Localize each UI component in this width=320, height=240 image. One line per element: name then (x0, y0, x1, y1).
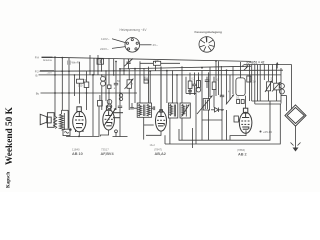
wire (172, 70, 174, 103)
wire (226, 110, 228, 140)
potentiometer VOL (208, 72, 210, 98)
wire (93, 58, 95, 75)
shield can (236, 78, 245, 96)
svg-text:+12V: +12V (47, 73, 53, 75)
ground arrow (293, 148, 299, 152)
electrolytic C pair (119, 94, 122, 97)
svg-text:220V~: 220V~ (100, 47, 109, 51)
wire (67, 110, 69, 129)
svg-text:AB 10: AB 10 (72, 152, 83, 156)
resistor R inline (140, 62, 180, 64)
capacitor C V2grid (108, 85, 111, 89)
resistor R7 (197, 81, 201, 88)
cathode blob V1 (69, 128, 72, 131)
wire segment B (113, 136, 128, 138)
wire (139, 61, 141, 103)
diode D2 (226, 95, 234, 105)
bus A (Antenne) (53, 57, 252, 61)
svg-text:73517: 73517 (101, 148, 109, 152)
diode D1 (215, 108, 219, 113)
wire (155, 65, 157, 71)
electrolytic C psu (279, 84, 284, 89)
speaker LS (40, 113, 54, 128)
wire (105, 71, 107, 101)
psu bottom bus (252, 100, 281, 102)
potentiometer P (128, 69, 130, 80)
wire (62, 109, 69, 111)
tube V2 (103, 106, 123, 130)
wire (220, 66, 222, 96)
wire (185, 77, 187, 94)
wire under V3 (146, 131, 161, 135)
wire (97, 58, 99, 75)
coil L osc (180, 103, 190, 118)
capacitor C (115, 62, 117, 84)
tube V3 (156, 67, 167, 132)
svg-text:1m: 1m (130, 83, 133, 86)
wire (134, 69, 136, 103)
grid box V4 left (234, 116, 238, 122)
wire (140, 44, 152, 46)
arrow busD (244, 67, 248, 71)
wire (181, 66, 183, 103)
label bias (260, 131, 262, 133)
svg-text:Heizspannung ~4V: Heizspannung ~4V (120, 28, 148, 32)
wire (54, 57, 56, 116)
electrolytic C (198, 77, 200, 88)
capacitor C ift1 left (131, 103, 133, 107)
svg-text:+05-13: +05-13 (263, 130, 272, 134)
grid feed V4 (245, 96, 247, 109)
wire (148, 67, 150, 103)
wire (73, 75, 75, 96)
wire (195, 88, 197, 145)
resistor R (101, 75, 103, 77)
svg-text:55+B51 = 42: 55+B51 = 42 (246, 61, 265, 65)
svg-text:2M: 2M (104, 77, 107, 79)
svg-text:Antenne: Antenne (43, 59, 53, 62)
svg-text:(7884): (7884) (237, 148, 245, 152)
PSU verticals (251, 65, 253, 102)
capacitor C11 (188, 89, 192, 91)
bus B (40, 70, 284, 71)
svg-text:Bu: Bu (36, 91, 40, 95)
wire (149, 71, 151, 103)
svg-text:AB,A2: AB,A2 (155, 152, 166, 156)
svg-text:500: 500 (78, 84, 83, 88)
svg-text:11840: 11840 (72, 148, 80, 152)
capacitor C9 (220, 94, 224, 96)
capacitor C (194, 73, 196, 85)
svg-text:Kapsch: Kapsch (7, 172, 12, 188)
bus C (39, 74, 282, 76)
wire AVC left (92, 75, 94, 136)
svg-text:110V~: 110V~ (101, 37, 110, 41)
PSU box top (244, 64, 292, 66)
bus D (120, 66, 251, 69)
wire under V1 (67, 106, 100, 136)
resistor R small (247, 76, 251, 82)
svg-text:(7847): (7847) (154, 148, 162, 152)
psu bottom 2 (255, 103, 281, 105)
mains box (63, 129, 70, 135)
wire (112, 47, 125, 49)
wire (295, 126, 297, 147)
psu vertical (248, 65, 250, 102)
svg-text:10k: 10k (155, 58, 160, 62)
svg-text:Wk+FL: Wk+FL (72, 60, 81, 64)
resistor R psu (267, 82, 271, 91)
wire (209, 67, 211, 97)
electrolytic C (107, 100, 112, 105)
svg-text:4V~: 4V~ (153, 43, 159, 47)
capacitor C 0.1 (237, 100, 240, 104)
wire (112, 39, 125, 43)
trimmer C1 (128, 59, 130, 62)
wire (101, 58, 103, 71)
pickup diamond (285, 105, 306, 126)
svg-text:Fassungsbelegung: Fassungsbelegung (195, 30, 223, 34)
wire (201, 70, 203, 99)
resistor R 500 (86, 71, 88, 110)
wire (226, 70, 228, 104)
wire (192, 128, 194, 148)
grid feed V2 (108, 58, 110, 104)
wire (201, 99, 203, 140)
transformer TR1 winding (60, 114, 64, 130)
coupling C to V1 grid (79, 62, 81, 79)
wire (68, 71, 70, 128)
wire (176, 75, 178, 103)
arrow psu2 (272, 82, 281, 92)
wire (89, 55, 91, 75)
capacitor C wk (68, 58, 70, 61)
wire (166, 71, 168, 103)
socket S2 (199, 37, 215, 53)
wire (123, 59, 125, 75)
svg-text:B.: B. (36, 73, 39, 77)
wire to diamond (291, 65, 293, 109)
resistor R zigzag (54, 117, 57, 129)
resistor R (144, 80, 148, 83)
arrow up (276, 64, 278, 69)
IF transformer IFT2 (168, 103, 177, 118)
svg-text:13+2: 13+2 (150, 144, 156, 147)
wire (181, 118, 183, 140)
resistor R8 (212, 82, 216, 90)
wire (155, 62, 157, 64)
electrolytic C (101, 76, 106, 81)
wire under V4 (230, 130, 246, 140)
socket S1 (125, 38, 140, 53)
resistor R (188, 81, 192, 89)
resistor R psu2 (274, 83, 280, 90)
capacitor C7 (205, 79, 209, 81)
value labels (85, 77, 274, 94)
wire (215, 61, 217, 96)
tube V4 (239, 108, 252, 133)
wire (189, 73, 191, 81)
svg-text:AF,BV4: AF,BV4 (101, 152, 115, 156)
wire (169, 118, 171, 144)
wire (113, 59, 115, 76)
capacitor C ift1 right (152, 107, 154, 109)
wire (61, 58, 63, 111)
capacitor C (118, 105, 122, 107)
junction dots (54, 56, 248, 94)
svg-text:AB 2: AB 2 (238, 152, 247, 156)
svg-text:Weekend 50 K: Weekend 50 K (5, 106, 15, 165)
wire under V2 (101, 130, 109, 136)
wire (143, 69, 145, 81)
svg-text:P.A: P.A (35, 56, 39, 60)
wire (229, 75, 231, 100)
IF transformer IFT1 (137, 103, 151, 117)
wire (218, 61, 220, 95)
transformer core (63, 113, 65, 130)
capacitor C10 (98, 101, 103, 107)
return line D (179, 101, 270, 140)
coil box L1 (97, 59, 104, 64)
wire (232, 66, 234, 94)
tube shading (76, 126, 248, 129)
return line E (165, 104, 280, 144)
wire (119, 69, 121, 106)
wire below ift1 (143, 117, 145, 139)
wire (61, 110, 63, 114)
tube V1 (73, 107, 86, 132)
svg-text:0,1: 0,1 (236, 97, 240, 100)
